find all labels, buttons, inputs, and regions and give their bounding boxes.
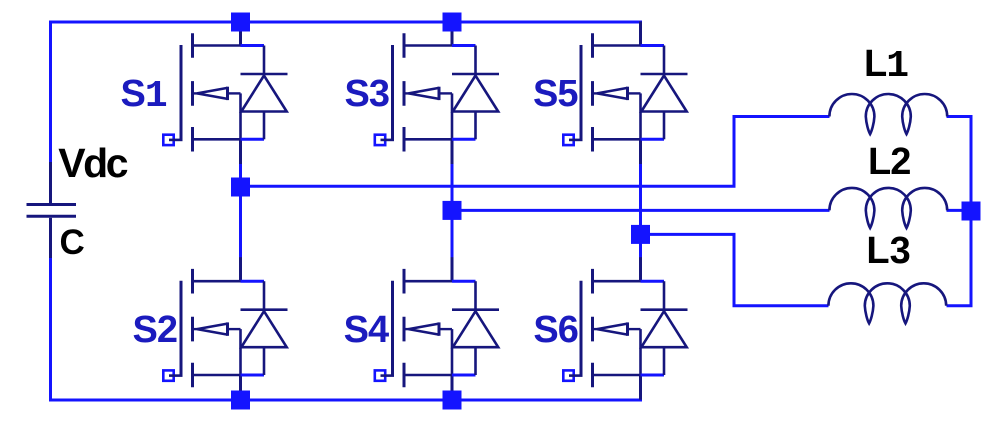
label S3 [345, 75, 389, 113]
wire: left rail top segment [49, 21, 52, 163]
capacitor C [27, 162, 77, 258]
wire: phase A output [241, 117, 830, 187]
label Vdc [58, 143, 126, 184]
transistor S4 [375, 257, 499, 400]
node: right bus [962, 202, 981, 221]
label S5 [533, 75, 577, 113]
node: top rail / S3 [443, 13, 462, 32]
transistor S5 [563, 22, 687, 165]
inductor L2 [829, 188, 947, 228]
transistor S1 [163, 22, 287, 165]
label S1 [121, 75, 167, 116]
wire: phase C leg [639, 164, 642, 258]
label S4 [344, 311, 388, 349]
node: phase B [443, 201, 462, 220]
label L2 [868, 143, 910, 181]
wire: left rail bottom segment [49, 258, 52, 401]
wire: phase B leg [451, 164, 454, 258]
node: top rail / S1 [231, 13, 250, 32]
wire: bottom rail [49, 375, 641, 400]
wire: L2 out [947, 209, 967, 212]
wire: top rail [49, 22, 641, 46]
label S6 [533, 311, 577, 349]
transistor S3 [375, 22, 499, 165]
node: bottom rail / S4 [443, 391, 462, 410]
label L1 [864, 45, 908, 86]
label L3 [866, 232, 910, 270]
node: bottom rail / S2 [231, 391, 250, 410]
transistor S2 [163, 257, 287, 400]
label C [60, 225, 85, 260]
wire: phase C output [641, 234, 829, 305]
inductor L3 [828, 283, 946, 323]
wire: phase B output [452, 209, 830, 212]
transistor S6 [563, 257, 687, 400]
wire: phase A leg (S1 bottom to S2 top) [239, 164, 242, 258]
node: phase C [631, 225, 650, 244]
label S2 [133, 311, 177, 349]
inductor L1 [829, 94, 947, 134]
wire: L3 out to right bus [947, 211, 972, 306]
node: phase A [231, 178, 250, 197]
wire: L1 out to right bus [947, 117, 972, 212]
